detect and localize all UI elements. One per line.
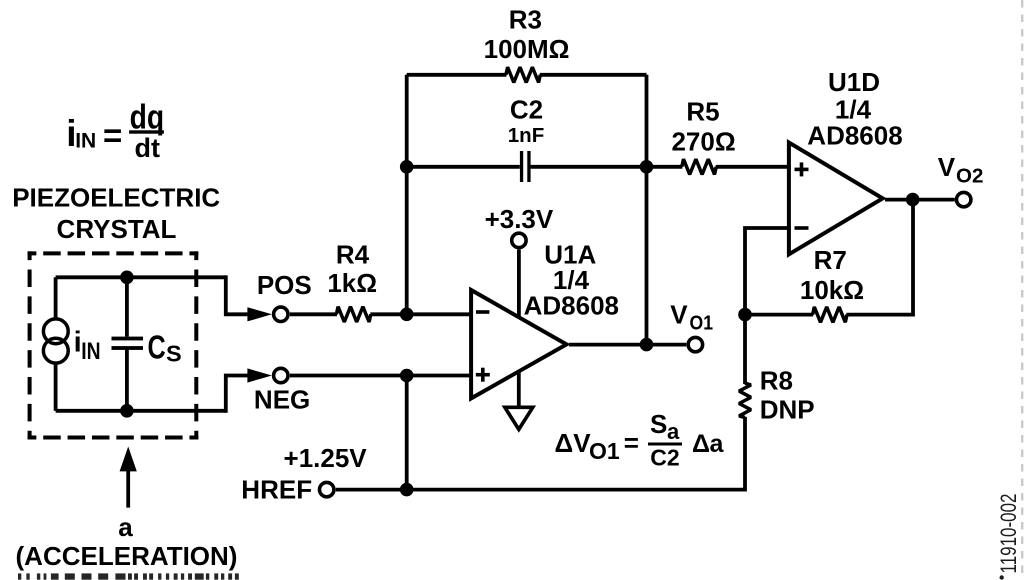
svg-text:PIEZOELECTRIC: PIEZOELECTRIC bbox=[12, 183, 220, 213]
wire R8 bottom to HREF bbox=[336, 417, 745, 490]
svg-text:1nF: 1nF bbox=[508, 124, 544, 147]
acceleration arrow bbox=[120, 447, 137, 508]
svg-text:=: = bbox=[624, 427, 639, 457]
wire C2 line left bbox=[407, 165, 520, 169]
terminal NEG arrow bbox=[247, 368, 272, 382]
wire feedback top right bbox=[540, 73, 647, 77]
ground bbox=[505, 372, 533, 430]
svg-text:+3.3V: +3.3V bbox=[485, 204, 554, 234]
wire R8 top bbox=[743, 315, 747, 384]
current source i_IN bbox=[43, 319, 68, 344]
svg-text:C: C bbox=[148, 329, 166, 366]
svg-text:270Ω: 270Ω bbox=[671, 127, 735, 157]
wire NEG step from crystal bbox=[224, 376, 249, 411]
svg-text:HREF: HREF bbox=[241, 474, 312, 504]
svg-text:V: V bbox=[670, 300, 688, 330]
svg-text:IN: IN bbox=[81, 338, 100, 365]
wire crystal left bottom bbox=[54, 364, 58, 411]
svg-text:dt: dt bbox=[135, 133, 160, 163]
wire feedback left vertical bbox=[405, 75, 409, 314]
cropped text line at bottom edge bbox=[18, 573, 239, 579]
resistor R5 bbox=[682, 159, 716, 174]
terminal POS circle bbox=[274, 307, 288, 321]
svg-text:O1: O1 bbox=[690, 312, 714, 335]
wire R7 line left bbox=[745, 313, 813, 317]
resistor R7 bbox=[813, 307, 847, 322]
capacitor C2 bbox=[520, 151, 531, 182]
wire U1A output bbox=[569, 343, 686, 347]
terminal VO2 circle bbox=[957, 192, 971, 206]
svg-text:+1.25V: +1.25V bbox=[284, 443, 368, 473]
wire feedback right vertical bbox=[645, 75, 649, 345]
svg-text:AD8608: AD8608 bbox=[807, 120, 902, 150]
terminal VO1 circle bbox=[688, 337, 702, 351]
op-amp U1D bbox=[789, 143, 883, 255]
wire NEG to op-amp bbox=[290, 374, 471, 378]
wire R5 line bbox=[647, 165, 683, 169]
op-amp U1D plus bbox=[795, 162, 809, 176]
wire crystal top bbox=[56, 275, 226, 279]
equation i_IN = dq/dt bbox=[66, 98, 164, 163]
svg-text:11910-002: 11910-002 bbox=[996, 494, 1021, 574]
svg-text:DNP: DNP bbox=[760, 395, 815, 425]
power +3.3V bbox=[512, 233, 526, 316]
terminal POS arrow bbox=[247, 307, 272, 321]
svg-text:V: V bbox=[938, 152, 956, 182]
wire U1D output bbox=[885, 198, 955, 202]
junction node R7 R8 bbox=[738, 308, 752, 322]
svg-text:R5: R5 bbox=[686, 96, 719, 126]
wire POS to R4 bbox=[290, 312, 337, 316]
wire R7 to output bbox=[846, 200, 913, 315]
junction node HREF bbox=[400, 483, 414, 497]
wire R4 to op-amp bbox=[370, 312, 471, 316]
junction node crystal bottom bbox=[120, 404, 134, 418]
svg-text:S: S bbox=[166, 341, 182, 367]
svg-text:ΔV: ΔV bbox=[555, 428, 592, 458]
right edge dashed line bbox=[1021, 0, 1023, 580]
svg-text:CRYSTAL: CRYSTAL bbox=[57, 214, 177, 244]
wire crystal left top bbox=[54, 277, 58, 318]
figure number 11910-002 bbox=[996, 494, 1021, 580]
terminal HREF circle bbox=[320, 482, 334, 496]
svg-text:C2: C2 bbox=[510, 95, 543, 125]
junction node VO1 bbox=[640, 338, 654, 352]
wire R5 to U1D bbox=[716, 165, 789, 169]
svg-text:1kΩ: 1kΩ bbox=[327, 268, 377, 298]
svg-text:R8: R8 bbox=[760, 366, 793, 396]
junction node VO2 bbox=[906, 193, 920, 207]
junction node feedback left bbox=[400, 160, 414, 174]
svg-text:10kΩ: 10kΩ bbox=[800, 275, 864, 305]
svg-text:Δa: Δa bbox=[692, 430, 725, 458]
svg-text:O1: O1 bbox=[589, 438, 620, 464]
svg-text:a: a bbox=[667, 419, 680, 444]
svg-text:NEG: NEG bbox=[254, 384, 310, 414]
svg-text:AD8608: AD8608 bbox=[524, 291, 619, 321]
wire C2 line right bbox=[531, 165, 647, 169]
wire NEG junction down to HREF bbox=[405, 376, 409, 490]
svg-text:U1D: U1D bbox=[828, 67, 880, 97]
svg-text:POS: POS bbox=[257, 270, 312, 300]
junction node R4 output bbox=[400, 308, 414, 322]
wire U1D minus input bbox=[745, 228, 789, 315]
resistor R8 bbox=[739, 383, 751, 417]
wire POS step from crystal bbox=[224, 277, 249, 314]
capacitor CS bbox=[112, 277, 144, 411]
op-amp U1A plus bbox=[476, 368, 490, 382]
svg-text:C2: C2 bbox=[650, 444, 679, 470]
svg-text:100MΩ: 100MΩ bbox=[484, 34, 570, 64]
junction node feedback right bbox=[640, 160, 654, 174]
terminal NEG circle bbox=[274, 368, 288, 382]
svg-text:R7: R7 bbox=[814, 245, 847, 275]
svg-text:=: = bbox=[103, 117, 122, 154]
resistor R3 bbox=[506, 67, 540, 82]
svg-text:a: a bbox=[118, 512, 133, 542]
svg-text:O2: O2 bbox=[956, 164, 983, 187]
wire feedback top bbox=[407, 73, 507, 77]
svg-text:R4: R4 bbox=[336, 240, 370, 270]
piezoelectric crystal dashed box bbox=[28, 251, 199, 439]
op-amp U1A bbox=[471, 290, 566, 398]
wire crystal bottom bbox=[56, 409, 226, 413]
junction node crystal top bbox=[120, 271, 134, 285]
resistor R4 bbox=[336, 307, 370, 322]
junction node NEG line bbox=[400, 369, 414, 383]
op-amp U1D minus bbox=[795, 226, 809, 230]
svg-text:S: S bbox=[650, 409, 667, 439]
op-amp U1A minus bbox=[476, 310, 489, 314]
equation dVO1 = Sa/C2 da bbox=[555, 409, 725, 470]
svg-text:(ACCELERATION): (ACCELERATION) bbox=[16, 541, 238, 571]
svg-text:IN: IN bbox=[75, 129, 96, 153]
svg-text:R3: R3 bbox=[509, 5, 542, 35]
